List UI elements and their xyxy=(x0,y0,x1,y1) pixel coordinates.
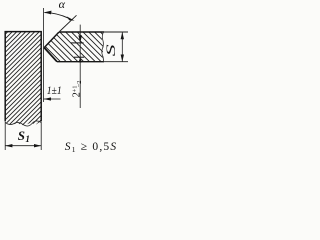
svg-text:α: α xyxy=(59,0,66,11)
S1 arrowhead left xyxy=(5,144,12,147)
left plate S1: outline xyxy=(5,32,41,122)
svg-text:−2: −2 xyxy=(76,80,83,87)
vertical reference line of root plane xyxy=(42,8,44,102)
S1 extension line left xyxy=(4,122,6,150)
root face lower extension tick xyxy=(74,56,84,58)
S dim arrowhead down xyxy=(121,55,124,62)
root face down arrowhead xyxy=(78,35,82,42)
root face up arrowhead xyxy=(79,57,82,62)
right plate top edge xyxy=(59,31,104,33)
S1 arrowhead right xyxy=(34,144,41,147)
root face upper extension tick xyxy=(71,42,84,44)
left plate break line xyxy=(5,121,41,126)
S1 extension line right xyxy=(40,122,42,150)
right plate bottom bevel edge xyxy=(44,48,57,62)
root face dimension line (vertical) xyxy=(79,25,81,108)
left plate S1: hatching xyxy=(0,30,149,130)
gap dimension arrowhead xyxy=(44,97,51,100)
right plate bottom edge xyxy=(57,61,104,63)
label 2 +1/-2 (rotated) xyxy=(71,80,83,97)
right plate top bevel edge xyxy=(44,32,59,48)
arc arrowhead left xyxy=(44,11,52,15)
S1 dimension line xyxy=(5,145,41,147)
arc arrowhead right xyxy=(67,16,75,20)
right plate break line xyxy=(102,32,104,62)
bevel extension line xyxy=(60,15,77,31)
S dim arrowhead up xyxy=(121,32,124,39)
angle dimension arc xyxy=(44,13,68,19)
svg-text:S: S xyxy=(104,44,118,57)
svg-text:1±1: 1±1 xyxy=(47,83,62,97)
S dimension line xyxy=(121,32,123,62)
right plate bottom edge extension (to S dim) xyxy=(104,61,128,63)
right plate top edge extension (to S dim) xyxy=(104,31,128,33)
right plate S: hatching xyxy=(0,24,154,74)
gap dimension leader line xyxy=(44,98,61,100)
